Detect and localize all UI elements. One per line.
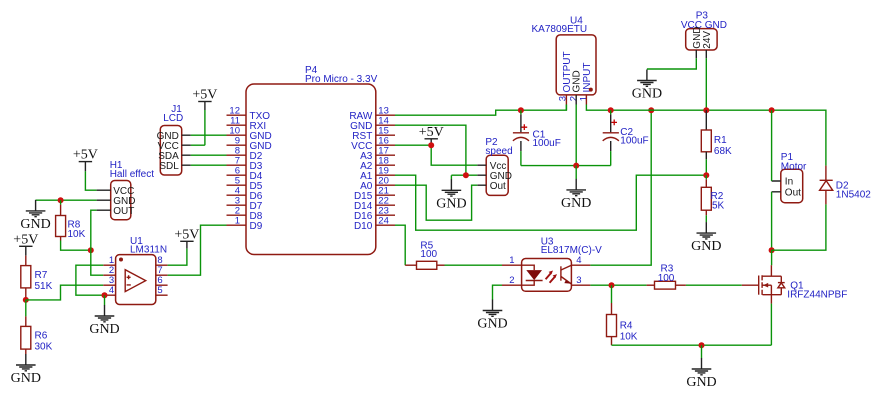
svg-text:24V: 24V: [702, 31, 713, 49]
regulator U4 KA7809ETU: [532, 15, 597, 104]
svg-text:In: In: [785, 177, 793, 188]
svg-text:10K: 10K: [68, 229, 86, 240]
svg-text:LCD: LCD: [163, 113, 183, 124]
svg-text:51K: 51K: [35, 281, 53, 292]
ground (R2): [691, 222, 721, 254]
svg-text:speed: speed: [485, 146, 512, 157]
IC P4 Pro Micro - 3.3V: [227, 65, 396, 255]
svg-text:Pro Micro - 3.3V: Pro Micro - 3.3V: [305, 74, 378, 85]
resistor R4 10K: [607, 285, 638, 345]
resistor R7 51K: [21, 256, 53, 300]
svg-text:R7: R7: [35, 270, 48, 281]
connector H1 Hall effect: [97, 160, 155, 220]
junction (pin14 / P2 GND): [463, 172, 469, 178]
wire P4 VCC to P2 Vcc: [395, 145, 477, 165]
junction (P3 / rail): [703, 107, 709, 113]
wire P3 GND pin to ground: [647, 58, 696, 69]
wire R8 to H1 OUT riser: [61, 241, 91, 251]
svg-text:LM311N: LM311N: [130, 245, 167, 256]
svg-text:5: 5: [157, 285, 162, 296]
junction (U1 pin4 / ground): [102, 292, 108, 298]
ground (U4/C1/C2): [561, 179, 591, 211]
wire rail to ground: [701, 345, 703, 358]
resistor R8 10K: [56, 200, 86, 240]
ground (Q1 source): [686, 358, 716, 390]
connector J1 LCD: [157, 104, 191, 175]
svg-text:24: 24: [378, 215, 389, 226]
wire U1 pin1 to pin4: [76, 265, 103, 295]
svg-text:100uF: 100uF: [620, 136, 648, 147]
wire D2 to Out junction: [772, 204, 826, 250]
svg-text:4: 4: [576, 255, 581, 266]
wire bottom source rail: [612, 344, 772, 346]
wire P1 Out down: [771, 192, 773, 250]
connector P3: [681, 10, 727, 58]
svg-text:10K: 10K: [620, 331, 638, 342]
wire J1 SDL to P4 pin7: [191, 164, 227, 166]
svg-text:D10: D10: [354, 221, 373, 232]
junction (R7/R6): [23, 297, 29, 303]
resistor R5 100: [405, 241, 444, 270]
svg-text:4: 4: [109, 285, 114, 296]
resistor R6 30K: [21, 300, 53, 354]
wire rail to P1 In: [771, 110, 773, 181]
svg-text:1N5402: 1N5402: [836, 189, 871, 200]
wire +5V to U1 pin8: [168, 249, 187, 266]
ground (U3): [477, 300, 507, 332]
power +5V (J1 VCC): [192, 88, 217, 111]
junction (VCC / +5V): [428, 142, 434, 148]
junction (pin4 riser / rail): [648, 107, 654, 113]
wire U3 pin3 to R3/R4: [590, 284, 646, 286]
junction (R8 / OUT riser): [88, 247, 94, 253]
junction (U4 GND / C rail): [573, 163, 579, 169]
wire +5V to H1 VCC: [85, 171, 96, 190]
svg-text:3: 3: [576, 275, 581, 286]
svg-text:1: 1: [235, 215, 240, 226]
svg-text:R4: R4: [620, 320, 633, 331]
wire Q1 source down: [770, 304, 772, 346]
power +5V (U1 pin8): [174, 227, 199, 248]
junction (C1 / 9V rail): [518, 107, 524, 113]
wire U1 pin4 to ground: [104, 295, 106, 305]
wire P4 pin24 D10 to R5: [395, 225, 405, 265]
power +5V (VCC): [419, 125, 444, 145]
resistor R1 68K: [701, 110, 732, 175]
ground (P3): [632, 70, 662, 102]
ground (R6): [11, 354, 41, 386]
svg-text:R1: R1: [714, 135, 727, 146]
svg-text:SDL: SDL: [159, 161, 179, 172]
wire U1 pin7 to P4 pin1 D9: [168, 225, 227, 275]
optocoupler U3 EL817M(C)-V: [502, 236, 602, 291]
ground (U1): [89, 305, 119, 337]
wire U4 OUTPUT to 9V rail: [565, 105, 567, 111]
ground (P2): [436, 179, 466, 211]
wire P4 pin14 GND down to P2 GND row: [395, 125, 477, 179]
power +5V (H1): [73, 148, 98, 172]
svg-text:EL817M(C)-V: EL817M(C)-V: [541, 245, 602, 256]
wire RAW to 9V rail: [395, 105, 566, 116]
junction (Out/D2/Q1): [769, 247, 775, 253]
ground (H1): [20, 200, 50, 232]
junction (source rail / ground): [699, 342, 705, 348]
svg-text:D9: D9: [250, 221, 263, 232]
svg-text:5K: 5K: [712, 200, 725, 211]
svg-text:30K: 30K: [35, 341, 53, 352]
wire U3 pin2 to ground: [493, 285, 503, 300]
wire P4 A1 to R1/R2 divider: [395, 175, 706, 230]
wire P3 24V pin to rail: [705, 58, 707, 110]
svg-text:1: 1: [579, 96, 590, 101]
junction (P1 / rail): [769, 107, 775, 113]
op-amp U1 LM311N: [103, 236, 167, 305]
svg-text:Out: Out: [490, 181, 506, 192]
resistor R3 100: [647, 263, 686, 289]
svg-text:Out: Out: [785, 187, 801, 198]
junction (H1 GND / R8): [58, 197, 64, 203]
resistor R2 5K: [701, 175, 724, 222]
svg-text:100: 100: [420, 249, 437, 260]
capacitor C1 100uF: [513, 110, 561, 165]
wire H1 OUT to U1 pin2: [91, 210, 104, 275]
wire P4 A0 to P2 Out: [395, 185, 477, 220]
svg-text:100uF: 100uF: [533, 138, 561, 149]
svg-text:IRFZ44NPBF: IRFZ44NPBF: [787, 290, 847, 301]
junction (R1/R2/A1): [703, 172, 709, 178]
transistor Q1 IRFZ44NPBF: [742, 250, 848, 303]
svg-text:Hall effect: Hall effect: [110, 169, 155, 180]
diode D2 1N5402: [820, 166, 872, 205]
svg-text:2: 2: [509, 275, 514, 286]
svg-text:68K: 68K: [714, 146, 732, 157]
connector P2 speed: [477, 137, 512, 196]
svg-text:R6: R6: [35, 330, 48, 341]
wire J1 SDA to P4 pin8: [191, 154, 227, 156]
wire U3 pin4 riser to 24V rail: [590, 110, 651, 265]
svg-text:100: 100: [658, 273, 675, 284]
svg-text:VCC GND: VCC GND: [681, 20, 727, 31]
svg-text:1: 1: [509, 255, 514, 266]
wire U4 GND down: [575, 105, 577, 166]
wire R3 to Q1 gate: [686, 284, 742, 286]
wire C1-C2 ground rail: [521, 165, 611, 167]
svg-text:OUT: OUT: [113, 206, 134, 217]
wire +5V to J1 VCC: [191, 110, 205, 145]
svg-text:KA7809ETU: KA7809ETU: [532, 24, 588, 35]
capacitor C2 100uF: [603, 110, 649, 165]
connector P1 Motor: [772, 152, 807, 203]
wire U4 INPUT + 24V rail: [586, 105, 826, 166]
wire H1 GND to ground: [36, 199, 97, 201]
power +5V (R7): [13, 232, 38, 255]
junction (pin3 / R4): [609, 282, 615, 288]
wire J1 GND to P4 pin10: [191, 134, 227, 136]
wire R5 to U3 pin1: [445, 264, 503, 266]
junction (C2 / rail): [608, 107, 614, 113]
wire divider to U1 pin3: [26, 285, 104, 300]
svg-text:Motor: Motor: [781, 162, 807, 173]
wire to ground (U4): [575, 166, 577, 180]
